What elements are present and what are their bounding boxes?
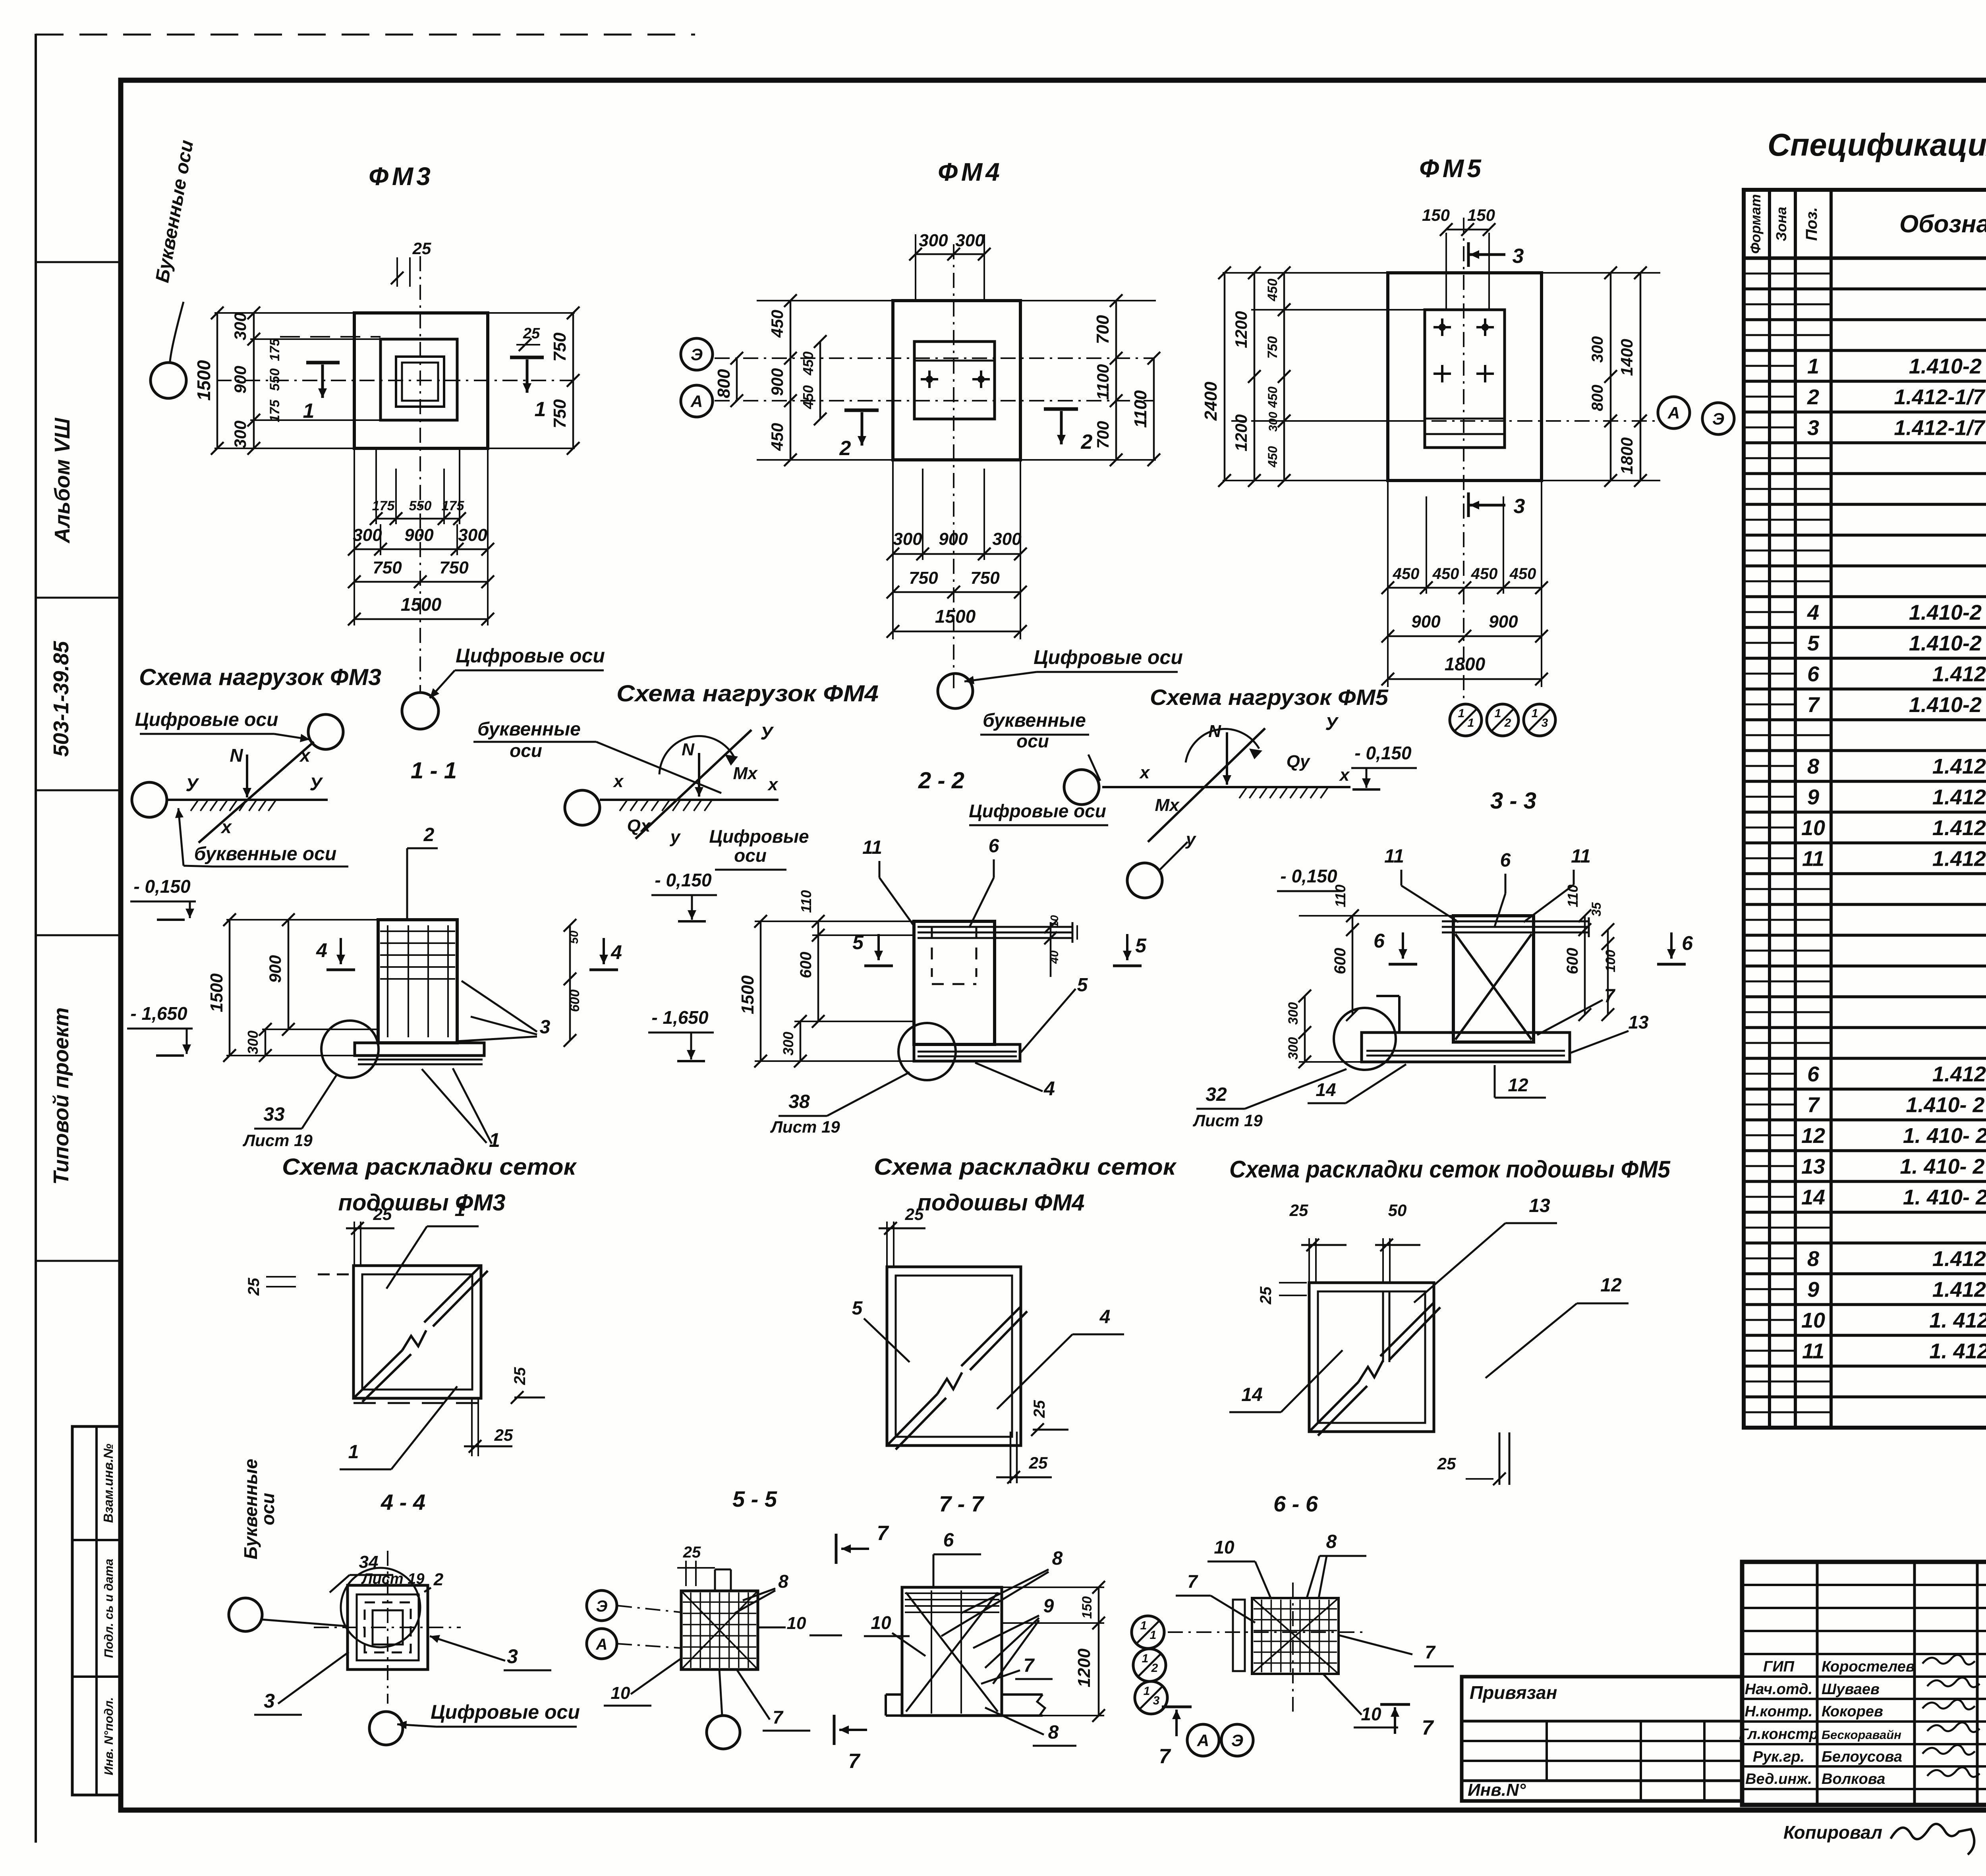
svg-text:6: 6 [1807,662,1820,686]
svg-text:1: 1 [1468,716,1474,730]
svg-text:10: 10 [1361,1704,1381,1724]
section 2-2 elev -1.650 [648,1007,714,1061]
svg-text:3: 3 [540,1017,551,1038]
svg-text:10: 10 [871,1612,891,1633]
svg-text:5: 5 [1135,934,1147,957]
svg-text:8: 8 [778,1571,788,1592]
section 3-3 leader 7 [1537,986,1616,1035]
svg-text:25: 25 [683,1544,701,1561]
svg-text:1.412.1- 4: 1.412.1- 4 [1932,662,1986,686]
section 7-7 label [939,1491,985,1516]
FM3 leader tsifrovye osi [430,645,605,698]
section 1-1 detail circle [321,1021,379,1078]
section 3-3 label [1490,788,1536,814]
svg-text:1.412,1- 4: 1.412,1- 4 [1932,755,1986,778]
svg-text:2: 2 [1081,430,1093,454]
FM5 bottom dim 450x4 [1381,481,1548,687]
FM5 anchor crosses [1433,318,1494,382]
mesh layout FM4 dim 25 top [879,1205,925,1267]
svg-text:6: 6 [943,1530,954,1551]
svg-text:4 - 4: 4 - 4 [381,1490,425,1515]
svg-text:7: 7 [1024,1655,1035,1676]
svg-text:300: 300 [1286,1002,1301,1025]
svg-text:13: 13 [1628,1012,1649,1033]
mesh layout FM5 dim 50 top [1375,1201,1420,1283]
svg-text:450: 450 [1509,565,1536,583]
mesh layout FM3 title [282,1154,577,1216]
section 7-7 leader 8 top [941,1548,1063,1636]
FM3 section mark 1 right [510,357,546,421]
FM3 leader bukvennye osi [152,139,197,361]
svg-text:1: 1 [535,398,546,421]
svg-text:300: 300 [955,231,985,250]
svg-text:800: 800 [1589,385,1606,411]
section 6-6 mesh end 25 [1437,1432,1509,1485]
svg-text:450: 450 [800,385,816,409]
inventory number label [1468,1780,1526,1800]
section 2-2 dim 110-600 [797,890,825,1028]
section 6-6 axis circle 1/2 [1133,1649,1166,1681]
svg-text:- 0,150: - 0,150 [133,876,191,897]
section 3-3 detail ref [1192,1069,1347,1130]
svg-text:Волкова: Волкова [1822,1771,1885,1787]
svg-text:750: 750 [550,332,570,362]
svg-text:300: 300 [458,525,487,545]
svg-text:5: 5 [852,931,864,953]
svg-text:450: 450 [800,351,816,376]
load scheme FM4 title [616,681,879,706]
section 2-2 leader 4 [975,1063,1055,1100]
svg-text:Альбом VШ: Альбом VШ [50,417,74,544]
load scheme FM5 bukvennye [980,710,1100,781]
load scheme FM5 axis circle bottom [1127,842,1188,898]
svg-text:4: 4 [1099,1307,1111,1328]
mesh layout FM5 leader 12 [1486,1275,1629,1378]
svg-text:300: 300 [231,313,249,340]
margin tick 1 [36,261,121,263]
svg-text:буквенные оси: буквенные оси [194,843,336,865]
FM3 dim chain left outer [193,307,224,455]
svg-text:Цифровые оси: Цифровые оси [431,1701,580,1723]
section 5-5 leader 7 bottom [737,1670,810,1731]
section 3-3 detail circle [1334,1008,1396,1070]
svg-text:1. 410- 2 Вып.1: 1. 410- 2 Вып.1 [1903,1124,1986,1148]
FM5 stakan inner lines [1425,419,1505,434]
load scheme FM3 diagonal [199,742,314,843]
svg-text:11: 11 [1571,846,1591,867]
svg-text:Гл.констр: Гл.констр [1739,1726,1818,1743]
section 2-2 mark 5 right [1113,934,1147,966]
FM4 ext lines left [757,301,893,460]
section 1-1 detail ref [242,1075,337,1150]
section 1-1 dim 1500 [207,913,236,1062]
svg-text:3 - 3: 3 - 3 [1490,788,1536,814]
margin stamp strip [72,1426,121,1795]
svg-text:оси: оси [257,1493,278,1525]
svg-text:10: 10 [1214,1537,1234,1558]
section 4-4 bukvennye osi [240,1459,278,1559]
section 3-3 leader 11 left [1384,846,1459,922]
svg-text:5: 5 [1807,631,1820,655]
margin tick 4 [36,934,121,936]
load scheme FM4 tsifrovye [709,826,809,870]
section 3-3 footing step [1376,996,1399,1033]
svg-text:Бескоравайн: Бескоравайн [1822,1728,1901,1742]
svg-text:А: А [690,392,703,411]
svg-text:1.412.1- 4: 1.412.1- 4 [1932,1278,1986,1301]
svg-text:3: 3 [1542,716,1548,730]
svg-text:7: 7 [1807,693,1820,717]
svg-text:1500: 1500 [935,606,976,627]
load scheme FM5 elev -0.150 [1277,866,1343,891]
section 5-5 top bar [715,1569,731,1591]
svg-text:450: 450 [768,310,786,338]
svg-text:750: 750 [970,568,1000,588]
svg-text:25: 25 [1289,1201,1308,1220]
svg-text:600: 600 [1564,948,1581,975]
svg-text:6 - 6: 6 - 6 [1273,1491,1318,1516]
FM4 axis A line [715,400,1154,401]
section 1-1 mark 4 left [316,938,355,970]
section 7-7 leader 6 [933,1530,981,1586]
svg-text:10: 10 [1048,915,1061,928]
svg-text:Схема раскладки сеток: Схема раскладки сеток [282,1154,577,1180]
svg-text:750: 750 [1265,336,1280,359]
svg-text:- 1,650: - 1,650 [130,1003,187,1024]
svg-text:25: 25 [373,1205,392,1224]
svg-text:600: 600 [797,952,815,979]
svg-text:Цифровые оси: Цифровые оси [969,801,1106,821]
svg-text:25: 25 [1437,1454,1456,1473]
svg-text:25: 25 [511,1367,529,1385]
svg-text:3: 3 [264,1690,275,1712]
mesh layout FM4 leader 4 [997,1307,1124,1409]
section 3-3 mark 6 left [1374,930,1417,964]
svg-text:Цифровые оси: Цифровые оси [456,645,605,667]
section 6-6 mesh square [1252,1598,1339,1674]
svg-text:Цифровые оси: Цифровые оси [135,709,278,730]
FM4 dim chain right inner [1093,294,1122,466]
svg-text:50: 50 [1388,1201,1407,1220]
section 3-3 cross bracing [1455,934,1532,1040]
mesh layout FM3 dim 25 bottom [464,1398,513,1456]
svg-text:14: 14 [1316,1079,1336,1100]
svg-text:300: 300 [245,1031,261,1054]
svg-text:450: 450 [1265,279,1280,302]
svg-text:оси: оси [734,845,767,866]
svg-text:Э: Э [1712,409,1724,428]
spec table title [1768,127,1986,162]
section 2-2 elev -0.150 [651,870,717,921]
svg-text:150: 150 [1422,206,1450,224]
svg-text:Схема нагрузок ФМ5: Схема нагрузок ФМ5 [1150,685,1389,710]
FM5 axis circle E right [1702,403,1734,434]
mesh layout FM3 dashed edges [318,1274,481,1403]
svg-text:8: 8 [1052,1548,1063,1569]
svg-text:25: 25 [412,239,431,258]
svg-text:800: 800 [714,369,734,398]
svg-text:1. 410- 2 Вып. 1: 1. 410- 2 Вып. 1 [1900,1154,1986,1178]
svg-text:1.412.1- 4: 1.412.1- 4 [1932,785,1986,809]
svg-text:175: 175 [267,338,282,361]
FM4 section mark 2 left [839,410,879,460]
svg-text:900: 900 [1489,612,1518,631]
mesh layout FM5 leader 14 [1229,1350,1343,1412]
load scheme FM5 ground [1102,787,1350,798]
svg-text:- 1,650: - 1,650 [651,1007,709,1028]
svg-text:1.410-2 Вып.1: 1.410-2 Вып.1 [1909,600,1986,624]
margin stamp label 2 [102,1559,116,1658]
FM3 bottom dim 1500 [348,448,494,625]
svg-text:1100: 1100 [1131,390,1150,428]
svg-text:- 0,150: - 0,150 [1354,743,1412,763]
section 5-5 axis circle A [587,1629,681,1659]
svg-text:ФМ5: ФМ5 [1419,154,1484,183]
section 1-1 column [378,920,457,1043]
svg-text:оси: оси [510,740,542,761]
FM4 dim chain left small [800,335,827,425]
margin label Tipovoy proekt [49,1007,73,1185]
svg-text:x: x [1139,763,1150,782]
svg-text:Копировал: Копировал [1783,1822,1882,1843]
svg-text:900: 900 [404,525,434,545]
FM3 column glass [396,357,444,407]
FM3 stakan outline [381,339,457,420]
svg-text:450: 450 [1393,565,1420,583]
svg-text:50: 50 [568,930,581,944]
svg-text:1: 1 [1532,707,1538,720]
svg-text:1200: 1200 [1074,1648,1094,1687]
mesh layout FM4 dim 25 right [1031,1400,1068,1436]
svg-text:13: 13 [1801,1154,1825,1178]
FM3 centerline vertical [419,256,421,693]
svg-text:9: 9 [1807,785,1819,809]
FM3 footing outline [354,313,488,448]
FM3 dim chain left inner [231,307,260,455]
svg-text:700: 700 [1093,315,1113,344]
section 2-2 footing slab [914,1044,1020,1061]
svg-text:1.412.1- 4: 1.412.1- 4 [1932,1247,1986,1271]
mesh layout FM5 mid bar [1383,1291,1389,1362]
section 2-2 detail circle [898,1023,956,1080]
mesh layout FM4 square [887,1267,1021,1446]
section 5-5 leader 8 [735,1571,788,1613]
svg-text:1.412-1/77 Вып.3: 1.412-1/77 Вып.3 [1894,385,1986,409]
svg-text:25: 25 [1029,1453,1048,1472]
svg-text:1: 1 [348,1442,359,1463]
mesh layout FM4 dim 25 bottom [996,1432,1052,1484]
FM5 dim chain right outer [1617,266,1647,487]
FM3 dim chain left small [267,338,282,423]
section 6-6 axis circle E [1221,1724,1253,1756]
section 3-3 footing slab [1362,1033,1570,1062]
load scheme FM3 bukvennye [175,808,348,867]
svg-text:3: 3 [1514,495,1525,518]
section 3-3 ext lines [1299,916,1453,1062]
FM4 dim chain left 800 [714,352,743,407]
load scheme FM3 title [139,664,381,690]
section 3-3 mark 6 right [1657,932,1693,964]
privyazan block outline [1462,1677,1742,1801]
margin label Album VIII [50,417,74,544]
svg-text:5: 5 [852,1298,863,1319]
sheet outer edge left [35,34,37,1843]
FM4 bottom dim 1500 [887,460,1027,639]
section 1-1 leader 1 [422,1068,500,1151]
section 3-3 right small dims [1564,884,1618,1021]
svg-text:450: 450 [1471,565,1498,583]
svg-text:11: 11 [862,837,882,858]
svg-text:10: 10 [1801,1309,1825,1332]
svg-text:35: 35 [1589,902,1603,917]
mesh layout FM5 dim 25 top [1289,1201,1347,1283]
load scheme FM5 diagonal [1148,728,1265,842]
svg-text:550: 550 [267,369,282,391]
load scheme FM5 title [1150,685,1389,710]
margin label 503-1-39.85 [49,641,73,757]
FM3 centerline horizontal [216,380,573,381]
svg-text:2 - 2: 2 - 2 [918,768,964,793]
mesh layout FM4 leader 5 [852,1298,910,1362]
svg-text:25: 25 [1257,1286,1275,1305]
section 5-5 mesh square [681,1591,758,1669]
FM4 centerline vertical [953,244,954,691]
svg-text:12: 12 [1600,1275,1622,1296]
svg-text:3: 3 [1513,245,1524,268]
section 7-7 leader 9 [973,1596,1054,1684]
svg-text:13: 13 [1529,1195,1550,1216]
section 2-2 dim 300 [780,1015,807,1067]
svg-text:8: 8 [1048,1722,1059,1743]
load scheme FM4 labels [613,723,779,847]
section 4-4 tsifrovye osi [397,1701,580,1729]
spec table content [1801,261,1986,1425]
section 4-4 centerlines [314,1551,461,1704]
load scheme FM5 labels [1139,713,1350,849]
svg-text:110: 110 [1565,884,1581,907]
svg-text:25: 25 [245,1278,263,1296]
svg-text:1: 1 [455,1199,466,1220]
svg-text:буквенные: буквенные [983,710,1086,731]
FM5 axis circles bottom [1450,704,1555,736]
svg-text:600: 600 [567,990,582,1012]
margin tick 5 [36,1260,121,1262]
svg-text:1: 1 [1144,1685,1150,1698]
FM4 anchor cross 2 [972,371,990,388]
svg-text:Схема раскладки сеток: Схема раскладки сеток [874,1154,1177,1180]
FM3 dim right 25 [516,325,540,351]
section 4-4 detail circle [341,1568,420,1647]
svg-text:8: 8 [1807,755,1819,778]
svg-text:Э: Э [1231,1731,1243,1750]
section 6-6 leader 8 [1307,1531,1366,1598]
svg-text:Шуваев: Шуваев [1822,1681,1880,1698]
svg-text:Mx: Mx [1155,795,1180,815]
section 4-4 label [381,1490,425,1515]
section 5-5 label [732,1486,777,1511]
section 1-1 footing slab [355,1043,484,1056]
svg-text:1800: 1800 [1445,654,1486,674]
section 3-3 leader 14 [1308,1064,1406,1103]
svg-text:Кокорев: Кокорев [1822,1703,1883,1720]
section 1-1 ext lines [226,920,378,1056]
svg-text:Инв. N°подл.: Инв. N°подл. [102,1697,116,1776]
FM3 bottom dim small [370,448,466,525]
svg-text:Лист 19: Лист 19 [1192,1111,1263,1130]
svg-text:У: У [760,723,774,743]
svg-text:Mx: Mx [733,764,758,783]
load scheme FM3 tsifrovye [135,709,310,742]
svg-text:у: у [1185,830,1197,849]
section 7-7 leader 7 [981,1655,1053,1684]
section 2-2 stakan dashed [932,927,976,984]
section 5-5 leader 10 right [758,1614,842,1635]
title block signature grid [1742,1562,1986,1805]
section 2-2 leader 6 [969,836,999,928]
svg-text:буквенные: буквенные [477,719,581,740]
FM5 section mark 3 top [1468,242,1524,268]
svg-text:Коростелев: Коростелев [1822,1658,1915,1675]
svg-text:40: 40 [1048,950,1061,964]
svg-text:1.410-2 Вып.1: 1.410-2 Вып.1 [1909,631,1986,655]
section 2-2 leader 5 right [1021,975,1088,1052]
svg-text:1: 1 [1140,1619,1147,1632]
FM4 section mark 2 right [1044,409,1093,454]
margin stamp label 3 [102,1697,116,1776]
svg-text:11: 11 [1802,847,1824,870]
FM5 section mark 3 bottom [1468,492,1525,518]
svg-text:2: 2 [433,1570,444,1589]
svg-text:1: 1 [1807,354,1819,378]
svg-text:3: 3 [1153,1694,1160,1707]
svg-text:450: 450 [768,423,786,451]
svg-text:1. 412.1- 4: 1. 412.1- 4 [1929,1339,1986,1363]
load scheme FM3 axis circle left [132,782,167,817]
section 6-6 axis circle 1/1 [1132,1616,1164,1648]
svg-text:ГИП: ГИП [1763,1658,1795,1675]
svg-text:750: 750 [550,399,570,428]
FM5 bottom dim 1800 [1381,654,1548,685]
section 6-6 axis circle 1/3 [1135,1681,1167,1714]
svg-text:7: 7 [1159,1745,1171,1768]
mesh layout FM3 dim 25 left [245,1277,296,1296]
svg-text:38: 38 [788,1091,810,1112]
svg-text:1.412.1- 4: 1.412.1- 4 [1932,816,1986,840]
svg-text:x: x [299,745,311,766]
svg-text:Поз.: Поз. [1803,207,1820,241]
section 3-3 column with mesh [1442,916,1589,1042]
section 6-6 leader 7 right [1339,1635,1454,1666]
svg-text:750: 750 [439,558,469,577]
svg-text:У: У [309,774,323,794]
svg-text:Вед.инж.: Вед.инж. [1745,1771,1812,1787]
svg-text:У: У [1325,713,1339,734]
load scheme FM5 axis circle left [1064,770,1099,805]
svg-text:1: 1 [1495,707,1501,720]
FM3 dim chain right [550,307,580,455]
FM3 extension lines left [214,313,381,448]
section 5-5 mark 7 top [836,1522,889,1564]
kopiroval note [1783,1822,1974,1855]
svg-text:1400: 1400 [1617,339,1636,376]
section 3-3 leader 11 right [1524,846,1591,922]
svg-text:8: 8 [1326,1531,1337,1552]
svg-text:1.410-2 Вып.1: 1.410-2 Вып.1 [1909,693,1986,717]
svg-text:32: 32 [1206,1084,1227,1105]
mesh layout FM3 leader 1 top [386,1199,479,1289]
svg-text:110: 110 [1332,884,1348,907]
svg-text:7: 7 [848,1750,861,1773]
